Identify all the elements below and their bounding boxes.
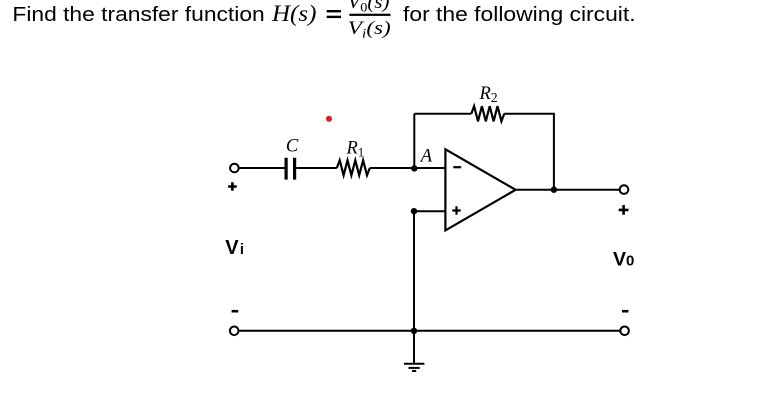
svg-text:Vi(s): Vi(s) bbox=[348, 18, 391, 41]
svg-text:V0(s): V0(s) bbox=[348, 0, 390, 15]
svg-text:A: A bbox=[419, 147, 433, 167]
svg-text:C: C bbox=[286, 136, 299, 156]
svg-text:V0: V0 bbox=[613, 248, 634, 270]
svg-text:R2: R2 bbox=[479, 84, 498, 105]
svg-text:H(s): H(s) bbox=[271, 1, 316, 26]
svg-text:R1: R1 bbox=[346, 139, 365, 160]
svg-text:for the following circuit.: for the following circuit. bbox=[403, 4, 636, 26]
svg-text:Find the transfer function: Find the transfer function bbox=[12, 4, 264, 26]
svg-text:Vi: Vi bbox=[225, 237, 244, 259]
